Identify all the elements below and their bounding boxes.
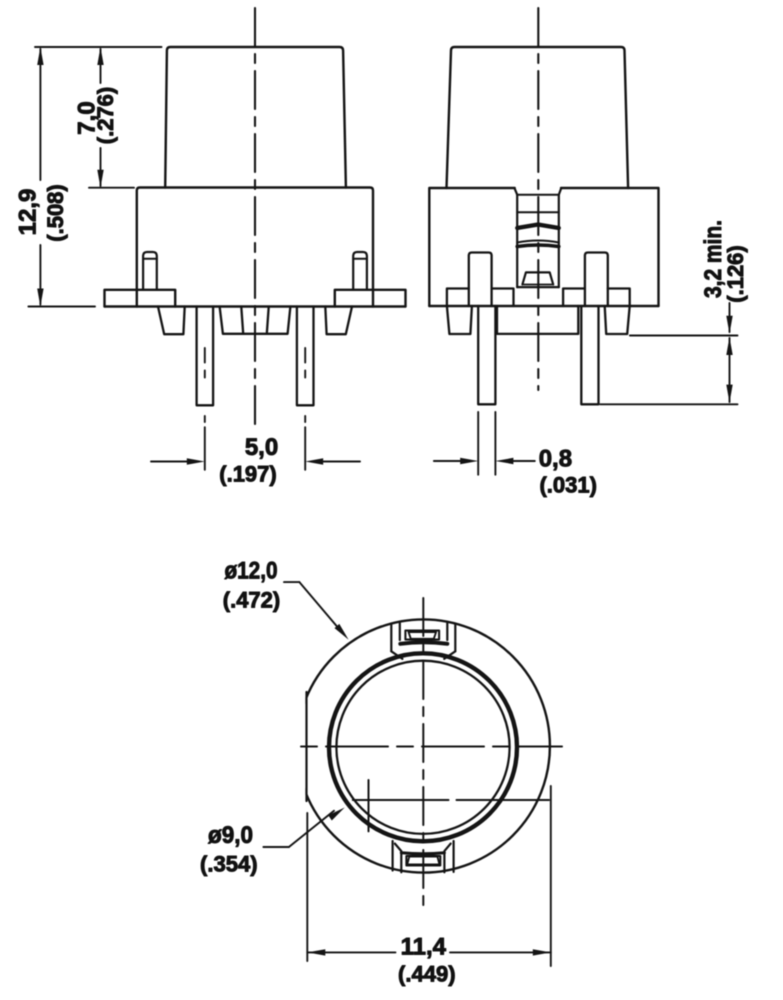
top tab outer left vertical [390,624,392,652]
left flat [305,692,307,801]
center block (side) [497,306,578,334]
svg-text:(.031): (.031) [539,473,596,498]
dim 11.4 left extension [306,813,308,961]
svg-text:0,8: 0,8 [539,446,572,473]
slot chamfer left [515,189,518,195]
dim 3.2 leader line [729,303,731,332]
right locating peg [353,252,367,290]
left post left tab [447,289,469,307]
centerline side view [537,8,539,390]
center feet block [220,307,291,334]
left post right tab [492,289,514,307]
right outer foot (side) [605,306,630,334]
right peg base line [353,258,367,260]
dim 12.9 line [39,49,41,305]
contact dome thick band [517,225,559,229]
bottom tab right diagonal [444,844,450,852]
bottom tab inner right vertical [443,852,445,873]
leader dia9 diagonal [289,811,334,847]
dim 0.8 right extension [494,412,496,475]
leader dia12 diagonal [299,582,340,630]
body bottom edge (side) [429,305,658,307]
dim 3.2 arrow up [726,337,732,355]
bottom tab bracket [406,856,440,866]
left mounting flange [105,290,176,307]
vertical centerline top view [422,598,424,908]
svg-text:5,0: 5,0 [245,434,278,461]
top tab inner trapezoid [409,632,437,639]
dim 3.2 arrow down [726,385,732,403]
dim 11.4 right extension [550,786,552,966]
left locating peg [143,252,157,290]
slot right wall [558,195,560,287]
svg-text:(.276): (.276) [93,87,118,144]
svg-text:(.354): (.354) [200,852,257,877]
left pin (side) [478,306,495,404]
svg-text:ø9,0: ø9,0 [208,822,253,849]
flat mask [294,688,305,805]
button cap (side view) [447,47,629,188]
right pin centerline [304,348,306,380]
left outer foot [158,307,185,335]
dim 7.0 arrow down [97,170,103,188]
svg-text:(.449): (.449) [398,962,455,987]
dim 0.8 left extension [477,412,479,475]
dim 0.8 left arrow line [434,460,461,462]
dim 3.2 leader arrowhead [726,316,732,334]
left outer foot (side) [447,306,472,334]
outer circle [297,619,550,872]
dim 5.0 right extension [304,416,306,470]
svg-text:(.472): (.472) [223,588,280,613]
dim 7.0 extension line bottom [89,187,134,189]
dim 11.4 line [307,951,551,953]
leader dia12 arrowhead [335,624,349,640]
left contact post [469,253,492,307]
dim 3.2 line [729,338,731,402]
bottom tab outer left vertical [392,841,394,871]
centerline front view [254,8,256,426]
dim 12.9 extension line top [35,46,162,48]
chord line right part [457,799,550,801]
top tab inner right vertical [446,622,448,640]
dim 5.0 right arrow line [322,461,360,463]
slot left wall [516,195,518,287]
bottom tab left diagonal [395,844,401,852]
svg-text:11,4: 11,4 [401,934,447,961]
right outer foot [325,307,352,335]
right pin (side) [581,306,598,404]
dim 5.0 left extension [204,416,206,470]
dim 7.0 arrow up [97,47,103,65]
right contact post [585,253,608,307]
dim 0.8 left arrowhead [460,458,478,464]
center feet inner slant right [267,307,269,334]
svg-text:(.508): (.508) [43,184,68,241]
top tab inner left vertical [399,622,401,640]
short vertical mark [368,780,370,831]
right pin (front) [297,307,314,406]
top tab bracket [405,631,439,640]
button cap (front view) [165,47,346,188]
dim 11.4 left arrowhead [307,949,325,955]
dim 7.0 line [100,49,102,186]
left pin centerline [204,348,206,380]
body bottom edge [105,305,406,307]
left pin (front) [197,307,214,406]
slot inner line 1 [517,194,559,196]
slot inner line 2 [517,211,559,213]
switch body (side view) [429,188,658,306]
cap hole circle [329,653,517,841]
dim 3.2 extension line top [630,335,738,337]
dim 0.8 right arrowhead [495,458,513,464]
dim 5.0 left arrowhead [187,458,205,464]
dim 12.9 arrow up [37,47,43,65]
dim 12.9 extension line bottom [28,306,95,308]
slot bottom [517,286,559,288]
right post right tab [608,289,630,307]
svg-text:12,9: 12,9 [15,189,42,236]
right post left tab [563,289,585,307]
bottom tab thick band [401,853,444,854]
chord line left part [353,799,449,801]
top tab thick band [400,642,447,644]
svg-text:(.126): (.126) [723,245,748,302]
dim 3.2 extension line bottom [600,403,737,405]
contact dome lower band [517,245,559,247]
switch body (front view) [137,188,373,307]
inner plunger circle [336,661,509,834]
pedestal in slot [522,272,553,284]
slot chamfer right [559,189,561,195]
dim 5.0 right arrowhead [305,458,323,464]
left peg base line [143,258,157,260]
svg-text:ø12,0: ø12,0 [225,558,278,585]
svg-text:(.197): (.197) [219,462,276,487]
dim 12.9 arrow down [37,289,43,307]
dim 0.8 right arrow line [512,460,535,462]
center feet inner slant left [241,307,243,334]
leader dia9 arrowhead [328,808,345,821]
pedestal base lines [522,285,553,288]
top tab right diagonal [444,651,455,659]
bottom tab inner trapezoid [407,857,439,865]
dim 5.0 left arrow line [151,461,188,463]
dim 11.4 right arrowhead [533,949,551,955]
top tab left diagonal [391,651,402,659]
top tab outer right vertical [454,624,456,652]
right mounting flange [335,290,406,307]
horizontal centerline top view [301,746,562,748]
bottom tab inner left vertical [400,852,402,873]
contact dome thin arc [517,241,559,243]
leader dia9 horizontal [263,846,289,848]
leader dia12 horizontal [284,581,299,583]
bottom tab outer right vertical [453,841,455,872]
